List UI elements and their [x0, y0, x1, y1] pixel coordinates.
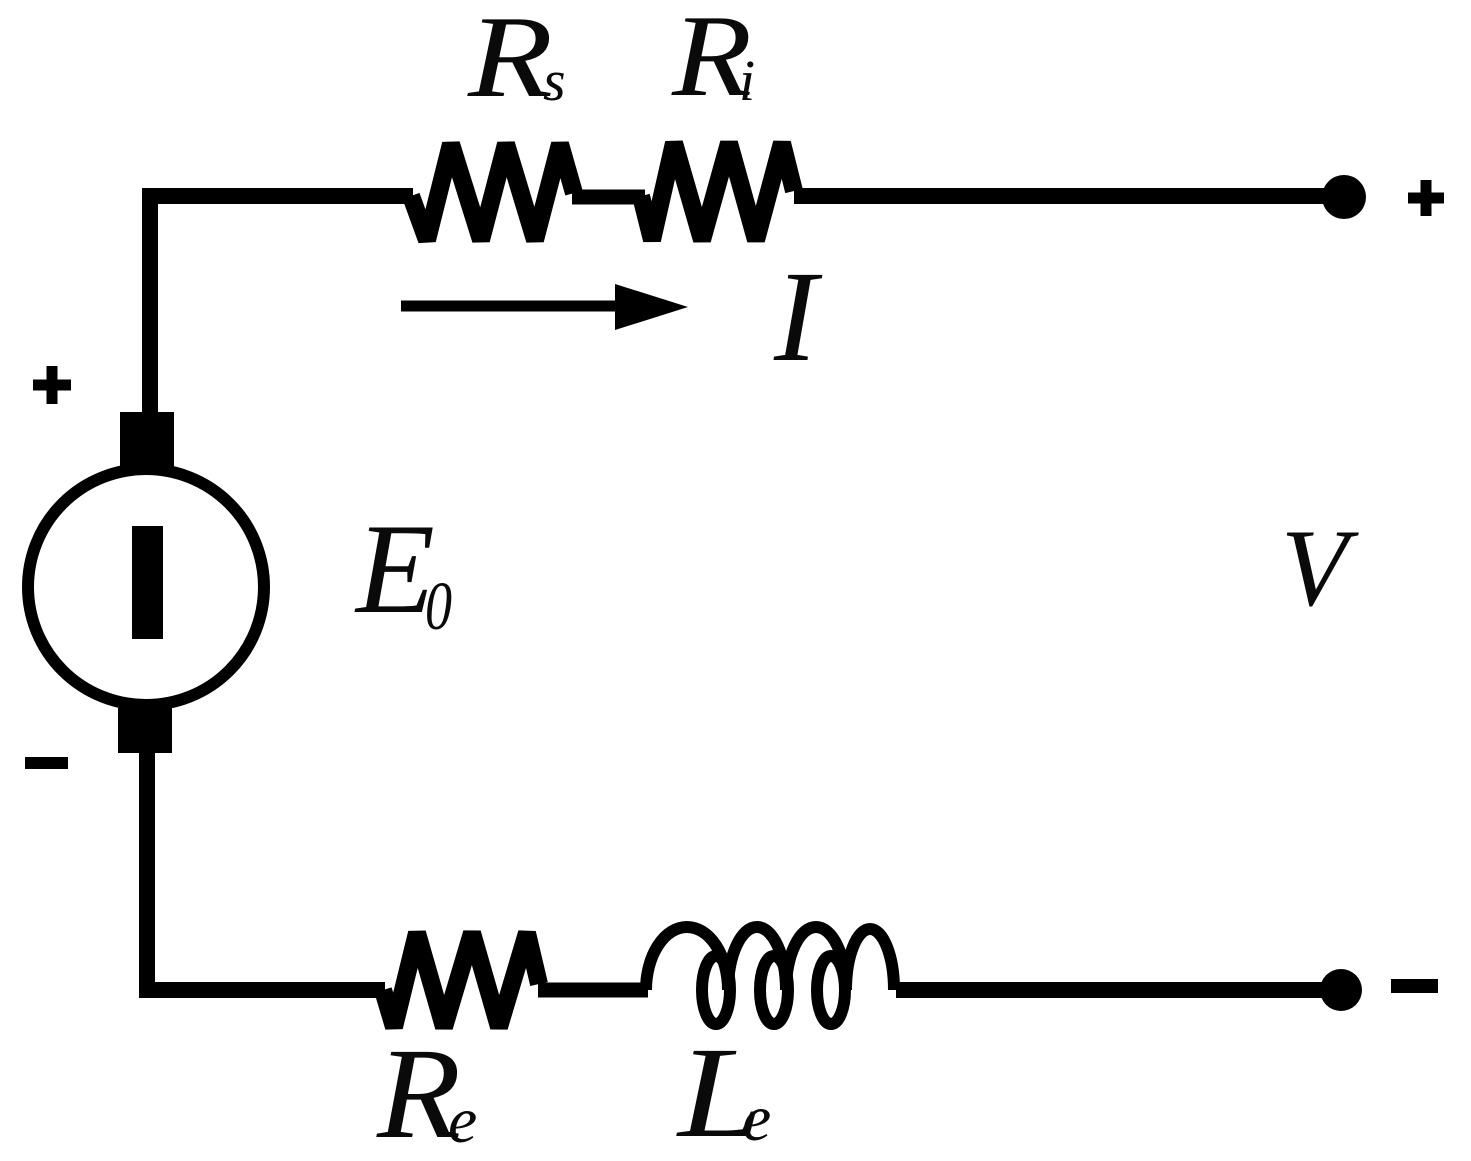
- svg-text:I: I: [773, 245, 823, 389]
- svg-text:R: R: [467, 0, 553, 122]
- svg-text:i: i: [739, 48, 755, 113]
- inductor Le: coil arches: [646, 927, 894, 990]
- wire: bottom rail from corner to resistor Re: [139, 982, 385, 998]
- inductor Le: loop 3: [817, 956, 845, 1024]
- svg-text:V: V: [1281, 507, 1359, 629]
- wire: between Rs and Ri: [572, 190, 645, 205]
- EMF source E0: bottom terminal square: [118, 708, 172, 753]
- inductor Le: loop 1: [702, 956, 730, 1024]
- EMF source E0: inner bar: [132, 526, 163, 639]
- label: + polarity at top-right terminal: [1408, 180, 1444, 216]
- wire: bottom-left vertical from source - terminal down to bottom rail: [139, 753, 155, 990]
- wire: top rail horizontal from corner to resistor Rs: [142, 188, 413, 204]
- svg-text:E: E: [354, 497, 435, 640]
- svg-text:0: 0: [425, 568, 452, 644]
- node: + terminal dot (top right): [1322, 175, 1366, 219]
- svg-text:e: e: [742, 1082, 771, 1155]
- resistor Re: [383, 933, 539, 1027]
- EMF source E0: circle body: [28, 469, 264, 705]
- svg-text:s: s: [543, 48, 566, 113]
- EMF source E0: top terminal square: [120, 412, 174, 466]
- node: - terminal dot (bottom right): [1320, 969, 1362, 1011]
- resistor Ri: [641, 143, 794, 240]
- current arrow I: [401, 284, 688, 330]
- inductor Le: loop 2: [760, 956, 788, 1024]
- wire: top rail from Ri to + node dot: [794, 188, 1344, 204]
- label - polarity at source bottom: [25, 757, 68, 769]
- resistor Rs: [411, 144, 574, 240]
- wire: bottom rail from Le to - node dot: [896, 982, 1341, 998]
- label - polarity at bottom-right terminal: [1391, 979, 1438, 993]
- svg-text:e: e: [448, 1084, 477, 1157]
- wire: top-left vertical from source + terminal up to top rail: [142, 196, 158, 412]
- label + polarity at source top: [33, 366, 71, 404]
- wire: between Re and Le: [538, 983, 648, 998]
